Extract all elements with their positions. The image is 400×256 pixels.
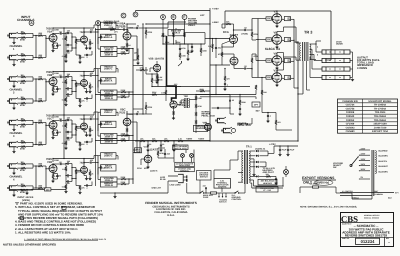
svg-text:BLU/YEL: BLU/YEL	[379, 160, 388, 163]
wire mixer upper cathode	[126, 40, 128, 43]
svg-text:PEDAL JACK: PEDAL JACK	[202, 115, 216, 118]
svg-text:1.5K: 1.5K	[267, 59, 272, 62]
svg-text:270K: 270K	[109, 26, 114, 29]
resistor 1.5K grid V10	[266, 76, 272, 79]
capacitor .02 mixer upper out	[127, 23, 136, 25]
capacitor .02 aux bus	[123, 28, 125, 30]
diode rectifier D3	[250, 161, 256, 163]
wire bus cross links	[133, 65, 143, 67]
wire mixing bus 2	[142, 24, 144, 114]
capacitor .022 out ch1	[84, 31, 90, 33]
svg-text:470K: 470K	[20, 82, 26, 85]
node E	[171, 15, 176, 20]
svg-text:470K: 470K	[140, 67, 145, 70]
capacitor .1 lower ch2	[86, 97, 88, 99]
wire tone net ch3	[71, 120, 73, 138]
wire PI cathodes	[233, 44, 235, 48]
svg-text:+465V: +465V	[186, 138, 193, 141]
capacitor .02 recovery	[239, 108, 241, 110]
resistor 1.5K cathode ch3	[52, 129, 54, 131]
svg-text:250K-A: 250K-A	[104, 80, 112, 83]
svg-text:1M: 1M	[134, 52, 137, 55]
svg-text:C25040: C25040	[346, 115, 355, 118]
wire tone net ch4	[71, 164, 73, 182]
capacitor .02 coupling ch4	[53, 163, 60, 165]
resistor 470K ch1b	[18, 59, 22, 61]
ground jack ch4b	[13, 190, 15, 194]
svg-text:REVERB SWITCHES S861729: REVERB SWITCHES S861729	[345, 234, 388, 238]
svg-text:CG5680: CG5680	[346, 130, 356, 133]
svg-text:+465V: +465V	[212, 21, 219, 24]
svg-text:3.3M: 3.3M	[197, 97, 202, 100]
wire stage2 ch2	[83, 72, 85, 80]
svg-text:TERMINAL: TERMINAL	[180, 169, 191, 172]
svg-text:100K: 100K	[62, 168, 67, 171]
resistor 100K mixer upper plate	[126, 24, 128, 32]
connector footswitch A	[181, 154, 185, 158]
resistor 100K reverb plate	[165, 90, 166, 95]
ground heater row	[26, 190, 28, 193]
svg-text:C: C	[122, 14, 125, 18]
svg-text:A: A	[30, 21, 33, 25]
svg-text:JOHN 7109: JOHN 7109	[374, 126, 387, 129]
wire lower bus	[95, 140, 210, 142]
ground jack ch2a	[13, 81, 15, 85]
wire strip out ch2	[132, 88, 134, 92]
resistor 15K bias feed	[261, 90, 262, 95]
capacitor 250pF treble ch2	[67, 75, 69, 77]
capacitor .047 mid ch1	[67, 50, 69, 52]
svg-text:TR 1: TR 1	[246, 145, 252, 148]
wire grids to triode ch4	[45, 166, 47, 188]
wire grid bus	[257, 19, 259, 78]
diode rectifier D4	[250, 166, 256, 168]
svg-text:68K: 68K	[39, 98, 43, 101]
svg-text:1W: 1W	[287, 77, 290, 80]
capacitor 70uF main	[273, 146, 275, 153]
potentiometer hum balance	[258, 179, 277, 185]
wire taps to jacks	[315, 44, 317, 52]
resistor 47K bass ch1	[79, 55, 80, 59]
box heater designation	[256, 187, 278, 192]
resistor 100K column	[179, 53, 180, 58]
capacitor .02 mixer lower out	[127, 113, 136, 115]
svg-text:250K-A: 250K-A	[104, 167, 112, 170]
ground cathode V9	[276, 65, 278, 67]
ground cathode V10	[276, 82, 278, 84]
svg-text:230V: 230V	[361, 147, 366, 150]
triode second half 7025 ch4	[81, 167, 88, 174]
pentode V10 6L6GC	[272, 73, 282, 83]
capacitor 120pF bright ch2	[100, 79, 102, 81]
resistor 47K bias lower	[275, 120, 276, 125]
svg-text:220K: 220K	[121, 50, 126, 53]
resistor 100K slope ch4	[65, 164, 67, 167]
svg-text:CG5643: CG5643	[346, 126, 356, 129]
fuse export 4.5A	[300, 186, 313, 188]
wire mains run	[115, 192, 168, 194]
resistor 470 screen V8	[284, 38, 290, 42]
wire CT ground	[250, 158, 254, 160]
svg-text:250: 250	[67, 73, 70, 76]
svg-text:6L6GC X4: 6L6GC X4	[265, 47, 280, 51]
svg-text:TR 3: TR 3	[304, 30, 313, 35]
wire aux mix bus	[163, 43, 205, 45]
potentiometer TREBLE ch3	[101, 109, 117, 115]
connector footswitch B	[190, 154, 194, 158]
svg-text:.1: .1	[86, 56, 88, 59]
svg-text:NOTE: GROUND SWITCH, S.L. .047: NOTE: GROUND SWITCH, S.L. .047 LOW VOLTA…	[300, 206, 357, 209]
wire stage2 ch3	[83, 115, 85, 123]
wire node F dropper	[184, 19, 186, 44]
resistor 470K PI load upper	[251, 32, 252, 37]
svg-text:V1B: V1B	[47, 74, 52, 77]
box output sockets	[175, 162, 195, 166]
wire thick reverb driver signal path	[167, 36, 177, 101]
wire stage2 ch4	[83, 159, 85, 167]
svg-text:BLU/RED: BLU/RED	[379, 150, 389, 153]
wire grid join ch1	[32, 33, 34, 37]
wire footswitch horizontals	[168, 147, 173, 149]
svg-text:250K-B: 250K-B	[105, 184, 113, 187]
wire strip out ch3	[132, 132, 134, 136]
svg-text:100K: 100K	[181, 55, 186, 58]
triode V5B footswitch driver	[144, 155, 152, 163]
switch ground S1	[199, 192, 200, 193]
svg-text:470K: 470K	[197, 105, 202, 108]
capacitor .047 line	[205, 187, 207, 189]
svg-text:1. ALL RESISTORS ARE 1/2 WATTS: 1. ALL RESISTORS ARE 1/2 WATTS 10%.	[15, 230, 71, 234]
svg-text:COMMON: COMMON	[374, 193, 383, 196]
resistor 220K recovery	[239, 100, 240, 105]
capacitor .02 PI out upper	[233, 30, 235, 36]
svg-text:.047: .047	[202, 184, 206, 187]
capacitor .047 mid ch2	[67, 93, 69, 95]
svg-text:10%: 10%	[114, 31, 118, 34]
svg-text:.1: .1	[67, 176, 69, 179]
resistor 1.5K grid V7	[266, 17, 272, 20]
svg-text:LINE CORD: LINE CORD	[170, 183, 182, 186]
resistor 1K cathode2 ch3	[89, 128, 90, 132]
resistor 1.5K grid V8	[266, 38, 272, 41]
capacitor .1 bass ch3	[67, 131, 69, 133]
box OPT bias	[252, 102, 260, 107]
switch power S2	[218, 196, 219, 197]
svg-text:470K: 470K	[20, 60, 26, 63]
wire B+ junction	[210, 140, 298, 142]
resistor 10K bias	[266, 176, 271, 177]
resistor 47K bass ch2	[79, 99, 80, 103]
svg-text:220K: 220K	[241, 101, 246, 104]
jack speaker output 3	[322, 67, 350, 71]
potentiometer VOLUME ch2	[101, 90, 118, 95]
jack channel 4 input 1	[9, 164, 16, 168]
svg-text:250K-A: 250K-A	[104, 36, 112, 39]
wire node E dropper	[173, 19, 175, 44]
svg-text:7025: 7025	[119, 24, 126, 28]
svg-text:1 - SAMPLE OF FIRST SERIALS: 1 - SAMPLE OF FIRST SERIALS TESTS MAY BE…	[24, 238, 106, 241]
svg-text:.001: .001	[217, 47, 221, 50]
resistor 100K plate ch1	[52, 28, 54, 32]
wire mixer lower cathode	[126, 126, 128, 128]
capacitor .001 PI cross	[215, 47, 217, 49]
box chassis gnd	[175, 167, 195, 171]
svg-text:100K: 100K	[128, 113, 133, 116]
wire grid join ch3	[32, 120, 34, 124]
node C2	[121, 13, 126, 18]
svg-text:68K: 68K	[39, 163, 43, 166]
potentiometer BASS ch1	[101, 34, 117, 40]
box MFR	[135, 148, 142, 153]
resistor 47K bass ch3	[79, 142, 80, 146]
capacitor .1 presence	[224, 83, 226, 85]
resistor 470 screen V9	[284, 59, 290, 63]
svg-text:1.5K: 1.5K	[267, 76, 272, 79]
ground cathode V7	[276, 23, 278, 25]
potentiometer TREBLE ch4	[101, 153, 117, 159]
svg-text:.1: .1	[67, 46, 69, 49]
wire bus to mixer upper	[133, 59, 137, 61]
resistor 47K bass ch4	[79, 186, 80, 190]
svg-text:GUIDE: GUIDE	[336, 43, 343, 46]
wire speaker return bus	[302, 61, 304, 94]
potentiometer BASS ch3	[101, 121, 117, 127]
resistor 100K slope ch1	[65, 33, 67, 36]
capacitor 4700 column	[179, 48, 181, 50]
svg-text:CHANNEL: CHANNEL	[10, 89, 23, 92]
wire strip gnd bus	[95, 28, 97, 186]
svg-text:SWITCH JACK: SWITCH JACK	[174, 147, 188, 150]
svg-text:68K: 68K	[39, 76, 43, 79]
svg-text:1.5K: 1.5K	[267, 38, 272, 41]
svg-text:SWITCH: SWITCH	[200, 176, 208, 179]
svg-text:470K: 470K	[147, 31, 152, 34]
svg-text:CHANNEL: CHANNEL	[10, 132, 23, 135]
resistor 470K ch2b	[18, 102, 22, 104]
resistor 1K cathode2 ch2	[89, 85, 90, 89]
wire feedback loop	[225, 10, 296, 12]
resistor 470K ch3b	[18, 146, 22, 148]
resistor 680K lower mid	[200, 90, 205, 91]
triode second half 7025 ch1	[81, 36, 88, 43]
ground cathode V8	[276, 44, 278, 46]
svg-text:7025: 7025	[80, 75, 86, 78]
svg-text:250K-C: 250K-C	[104, 111, 112, 114]
svg-text:1M: 1M	[21, 52, 24, 55]
wire bias to PSU	[276, 129, 292, 131]
svg-text:TR-10454A: TR-10454A	[374, 104, 387, 107]
capacitor .047 mid ch4	[67, 180, 69, 182]
resistor 470K fs	[157, 151, 158, 156]
resistor 470 screen V7	[284, 17, 290, 21]
jack speaker output 4	[322, 75, 350, 79]
wire PI input	[210, 38, 230, 40]
capacitor 500pF reverb mix	[157, 79, 159, 81]
svg-text:+440V: +440V	[198, 138, 205, 141]
transformer export primary	[371, 150, 373, 196]
wire heater pair	[250, 179, 254, 181]
capacitor bias	[275, 176, 277, 178]
wire bias run	[261, 108, 263, 113]
resistor 6.8K mid ch2	[65, 95, 67, 98]
capacitor reverb mix	[217, 107, 219, 109]
svg-text:CD5734: CD5734	[346, 104, 355, 107]
resistor 68K grid a ch3	[38, 122, 43, 123]
resistor 470K ch4b	[18, 189, 22, 191]
svg-text:250K-B: 250K-B	[105, 53, 113, 56]
svg-text:4.7K: 4.7K	[178, 138, 183, 141]
svg-text:8: 8	[317, 54, 318, 57]
jack channel 3 input 1	[9, 120, 16, 124]
svg-text:68K: 68K	[39, 32, 43, 35]
svg-text:U.S.A.: U.S.A.	[167, 214, 175, 217]
svg-text:1N4004 X4: 1N4004 X4	[255, 147, 266, 150]
wire grids to triode ch1	[45, 36, 47, 58]
resistor 1M ch3b	[18, 141, 22, 143]
svg-text:250K-B: 250K-B	[105, 97, 113, 100]
resistor 1M mid	[187, 50, 188, 55]
table chassis serial numbers	[338, 99, 398, 133]
resistor 250K tone ch3	[75, 126, 76, 131]
wire mid mix bus	[95, 94, 256, 96]
svg-text:.022: .022	[90, 116, 94, 119]
svg-text:120V: 120V	[361, 158, 366, 161]
svg-text:REVERB: REVERB	[196, 127, 206, 130]
triode second half 7025 ch3	[81, 123, 88, 130]
svg-text:105AP 0109: 105AP 0109	[373, 123, 387, 126]
jack channel 2 input 2	[9, 99, 16, 103]
resistor 6.8K mid ch4	[65, 182, 67, 185]
wire plate rail ch4	[53, 158, 94, 160]
svg-text:CHANNEL: CHANNEL	[10, 176, 23, 179]
wire reverb tank out	[190, 99, 197, 101]
resistor 68K grid b ch4	[38, 187, 43, 188]
triode second half 7025 ch2	[81, 80, 88, 87]
resistor 470K ch4a	[18, 167, 22, 169]
resistor 1M ch2b	[18, 98, 22, 100]
svg-text:250K-C: 250K-C	[104, 155, 112, 158]
ground jack ch3a	[13, 125, 15, 129]
triode V5B 12AT7 PI lower	[230, 57, 238, 65]
wire V5B mid connections	[156, 61, 158, 64]
svg-text:4700: 4700	[181, 47, 185, 50]
svg-text:CD5756: CD5756	[346, 107, 355, 110]
diode rectifier D1	[250, 150, 256, 152]
wire bright ch2	[93, 69, 95, 72]
resistor filter 22K	[152, 140, 157, 141]
svg-text:FUSE: FUSE	[203, 196, 209, 199]
resistor 3.3M reverb mix	[151, 78, 152, 83]
ground jack ch1b	[13, 60, 15, 64]
svg-text:1M: 1M	[21, 30, 24, 33]
capacitor 25uF bypass ch1	[53, 42, 58, 44]
resistor 470 screen V10	[284, 76, 290, 80]
svg-text:LIST: LIST	[200, 14, 205, 17]
svg-text:50 Hz: 50 Hz	[160, 178, 166, 181]
svg-text:250K-A: 250K-A	[104, 123, 112, 126]
wire export taps	[360, 149, 370, 151]
svg-text:+470V: +470V	[212, 8, 219, 11]
svg-text:-52V: -52V	[255, 110, 260, 113]
pentode V8 6L6GC	[272, 35, 282, 45]
capacitor filter 1	[147, 141, 149, 145]
svg-text:.1: .1	[226, 84, 228, 87]
svg-text:470K: 470K	[20, 125, 26, 128]
svg-text:70uF: 70uF	[290, 148, 295, 151]
jack channel 1 input 2	[9, 55, 16, 59]
capacitor 25uF bypass ch4	[53, 173, 58, 175]
wire bass return ch4	[75, 179, 77, 186]
wire grid join ch2	[32, 77, 34, 81]
svg-text:110V: 110V	[361, 163, 366, 166]
resistor 220K mixer ch1	[117, 48, 121, 50]
capacitor .045 fs	[164, 153, 166, 155]
resistor 6.8K mid ch3	[65, 138, 67, 141]
svg-text:1W: 1W	[287, 18, 290, 21]
svg-text:7025: 7025	[80, 162, 86, 165]
svg-text:20: 20	[149, 143, 151, 146]
svg-text:4.5 AMP: 4.5 AMP	[310, 183, 318, 186]
wire export runs	[299, 187, 301, 193]
svg-text:.045: .045	[166, 153, 170, 156]
diode rectifier D2	[250, 155, 256, 157]
node F	[182, 15, 187, 20]
svg-text:.1: .1	[269, 115, 271, 118]
svg-text:.1: .1	[67, 89, 69, 92]
svg-text:100K: 100K	[62, 38, 67, 41]
jack speaker output 1	[322, 50, 350, 54]
svg-text:012234: 012234	[361, 239, 376, 244]
resistor 470K ch3a	[18, 124, 22, 126]
wire footswitch driver	[147, 151, 149, 156]
svg-text:BLU/WHT: BLU/WHT	[379, 165, 389, 168]
resistor 1K cathode2 ch4	[89, 172, 90, 176]
svg-text:470K: 470K	[20, 38, 26, 41]
svg-text:(12AT7): (12AT7)	[150, 170, 158, 173]
wire bass return ch2	[75, 92, 77, 99]
jack reverb pedal 1	[217, 118, 224, 122]
svg-text:470K: 470K	[147, 106, 152, 109]
svg-text:100K: 100K	[62, 125, 67, 128]
svg-text:EXPORT VERSIONS: EXPORT VERSIONS	[302, 176, 335, 180]
wire export rows	[340, 192, 394, 194]
wire plate rail ch2	[53, 71, 94, 73]
resistor 6.8K mid ch1	[65, 51, 67, 54]
diode row lower	[240, 123, 242, 125]
box foot reverb switch	[173, 145, 189, 150]
capacitor 250pF treble ch3	[67, 119, 69, 121]
resistor 1.5K cathode ch1	[52, 42, 54, 44]
wire B+ down from OT	[297, 42, 299, 141]
capacitor .1 lower ch3	[86, 141, 88, 143]
svg-text:PEDAL JACK: PEDAL JACK	[238, 124, 252, 127]
potentiometer VOLUME ch4	[101, 177, 118, 182]
svg-text:V5B: V5B	[149, 58, 154, 61]
pentode V9 6L6GC	[272, 56, 282, 66]
capacitor .003 reverb	[175, 85, 177, 87]
svg-text:1M: 1M	[21, 183, 24, 186]
svg-text:1M: 1M	[208, 45, 211, 48]
wire PI outputs	[251, 19, 253, 31]
svg-text:470K: 470K	[20, 191, 26, 194]
jack channel 3 input 2	[9, 142, 16, 146]
fuse heater 1.5A	[45, 188, 51, 191]
jack channel 4 input 2	[9, 186, 16, 190]
resistor 1M ch4b	[18, 185, 22, 187]
svg-text:100K: 100K	[161, 92, 166, 95]
wire top screen bus	[136, 10, 211, 12]
svg-text:250: 250	[67, 117, 70, 120]
